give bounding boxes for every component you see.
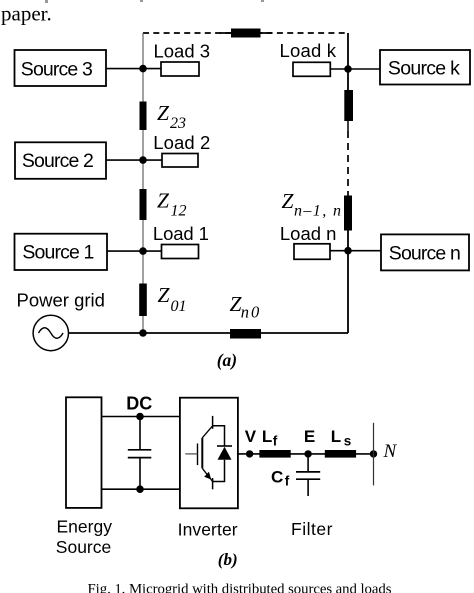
- label Cf: [271, 467, 290, 488]
- node dc-: [136, 485, 144, 493]
- svg-text:Load 1: Load 1: [153, 223, 209, 244]
- svg-text:Load 3: Load 3: [154, 41, 211, 62]
- inductor Ls: [325, 450, 356, 458]
- svg-text:C: C: [271, 467, 283, 486]
- wire inverter output: [238, 453, 374, 455]
- svg-text:Fig. 1. Microgrid with distrib: Fig. 1. Microgrid with distributed sourc…: [88, 581, 392, 593]
- svg-text:N: N: [383, 441, 398, 462]
- load Load 3: [154, 41, 211, 76]
- svg-text:L: L: [331, 427, 341, 446]
- wire bottom bus: [69, 332, 349, 334]
- label Z12: [157, 189, 187, 220]
- capacitor Cf: [296, 454, 320, 496]
- svg-text:n–1, n: n–1, n: [294, 203, 341, 220]
- impedance Zn-1,n: [344, 196, 352, 231]
- wire Source n to bus: [330, 250, 381, 252]
- inverter box: [178, 398, 238, 540]
- svg-text:f: f: [273, 434, 278, 449]
- svg-text:Z: Z: [157, 189, 170, 213]
- node V: [246, 450, 253, 457]
- svg-text:paper.: paper.: [1, 2, 52, 26]
- wire top dashed bus: [143, 32, 348, 34]
- wire Source 3 to bus: [106, 68, 161, 70]
- node n: [344, 247, 352, 255]
- source box Source 1: [15, 234, 108, 270]
- source box Source k: [380, 50, 470, 85]
- node N: [370, 450, 377, 457]
- node 2: [139, 156, 147, 164]
- impedance Z01: [139, 284, 147, 317]
- label Zn-1,n: [282, 189, 342, 220]
- source box Energy Source: [56, 397, 112, 557]
- label Zn0: [230, 292, 261, 322]
- load Load 1: [153, 223, 209, 259]
- diode freewheel: [213, 426, 232, 482]
- svg-text:Power grid: Power grid: [17, 289, 105, 310]
- load Load 2: [153, 132, 210, 167]
- svg-text:Z: Z: [282, 189, 295, 213]
- impedance Z3k (top bus): [231, 29, 261, 38]
- wire right bus lower: [347, 230, 349, 333]
- impedance Z12: [140, 189, 147, 220]
- wire Source 2 to bus: [106, 159, 162, 161]
- wire Source 1 to bus: [107, 250, 162, 252]
- impedance Z23: [140, 102, 147, 131]
- svg-text:Source: Source: [56, 537, 111, 557]
- svg-text:Source k: Source k: [388, 57, 460, 79]
- node k: [344, 65, 352, 73]
- svg-text:Source 3: Source 3: [21, 59, 93, 81]
- svg-text:n0: n0: [241, 303, 260, 322]
- svg-text:12: 12: [171, 203, 187, 220]
- svg-text:Energy: Energy: [57, 517, 113, 537]
- wire dc top: [102, 416, 180, 418]
- wire left bus: [142, 33, 144, 333]
- node dc+: [136, 413, 144, 421]
- inductor Lf: [259, 450, 290, 458]
- svg-text:Source 1: Source 1: [22, 242, 94, 264]
- label Z01: [158, 283, 187, 315]
- svg-text:Filter: Filter: [291, 519, 333, 539]
- svg-text:Load 2: Load 2: [153, 132, 210, 153]
- impedance Zk (right bus): [344, 90, 353, 121]
- wire N vertical: [373, 423, 375, 486]
- svg-text:Z: Z: [158, 283, 171, 307]
- impedance Zn0: [230, 329, 261, 339]
- svg-text:DC: DC: [126, 394, 152, 414]
- load Load k: [280, 40, 337, 77]
- node 1: [139, 247, 147, 255]
- capacitor dc-link: [128, 417, 152, 490]
- ac source Power grid: [17, 289, 105, 350]
- svg-text:Source n: Source n: [389, 242, 461, 264]
- source box Source 3: [15, 50, 107, 86]
- svg-text:Inverter: Inverter: [178, 519, 238, 539]
- svg-text:L: L: [262, 427, 272, 446]
- svg-text:Source 2: Source 2: [22, 150, 94, 172]
- svg-text:Load n: Load n: [280, 223, 337, 244]
- svg-text:(a): (a): [217, 350, 237, 370]
- svg-text:Z: Z: [157, 101, 170, 125]
- wire right bus upper: [347, 33, 349, 90]
- wire right bus dashed: [347, 121, 349, 131]
- node 3: [139, 65, 147, 73]
- text fragment "paper.": [1, 0, 264, 26]
- svg-text:(b): (b): [218, 550, 238, 569]
- node 0: [139, 329, 147, 337]
- label Z23: [157, 101, 186, 132]
- svg-text:Load k: Load k: [280, 40, 337, 61]
- transistor IGBT: [185, 416, 212, 489]
- svg-text:f: f: [285, 474, 290, 489]
- source box Source 2: [15, 142, 106, 179]
- svg-text:23: 23: [170, 115, 186, 132]
- wire Source k to bus: [330, 68, 380, 70]
- load Load n: [280, 223, 337, 259]
- wire dc bottom: [102, 488, 180, 490]
- svg-text:E: E: [304, 427, 315, 446]
- svg-text:V: V: [245, 427, 257, 446]
- node E: [304, 450, 311, 457]
- svg-text:01: 01: [171, 298, 187, 315]
- svg-text:s: s: [344, 434, 352, 449]
- label Ls: [331, 427, 351, 449]
- label Lf: [262, 427, 278, 449]
- source box Source n: [381, 234, 469, 270]
